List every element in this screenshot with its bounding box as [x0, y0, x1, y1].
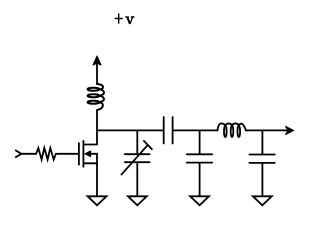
capacitor C2 (series coupling): [164, 117, 173, 144]
wire rail to C3: [199, 130, 201, 153]
wire rail to C4: [261, 130, 263, 153]
inductor L2 (horizontal): [218, 123, 246, 137]
inductor L1 (vertical RFC): [88, 84, 104, 110]
transistor Q1 (MOSFET): [79, 141, 97, 196]
wire C1 to ground: [136, 163, 138, 196]
ground (C3): [190, 196, 209, 205]
power arrow to +v: [93, 56, 101, 84]
wire C3 to ground: [199, 164, 201, 196]
wire main rail left segment (drain node to C2): [97, 129, 164, 131]
wire L1 bottom to drain node: [96, 110, 98, 144]
resistor R1: [36, 148, 56, 160]
output arrow: [286, 126, 294, 134]
capacitor C4 (shunt): [249, 155, 274, 163]
wire R1 to gate: [56, 153, 79, 155]
input terminal: [16, 151, 22, 158]
ground (C4): [253, 196, 272, 205]
wire L2 to output: [246, 129, 289, 131]
wire C4 to ground: [261, 164, 263, 196]
capacitor C3 (shunt): [187, 154, 212, 162]
node +v label plus sign: [115, 14, 122, 23]
capacitor C1 (variable): [122, 141, 152, 175]
node +v label text v: [125, 17, 134, 24]
ground (source): [88, 196, 107, 205]
wire C2 to L2: [173, 129, 218, 131]
wire terminal to R1: [21, 153, 36, 155]
ground (C1): [128, 196, 147, 205]
wire rail to C1: [136, 130, 138, 153]
